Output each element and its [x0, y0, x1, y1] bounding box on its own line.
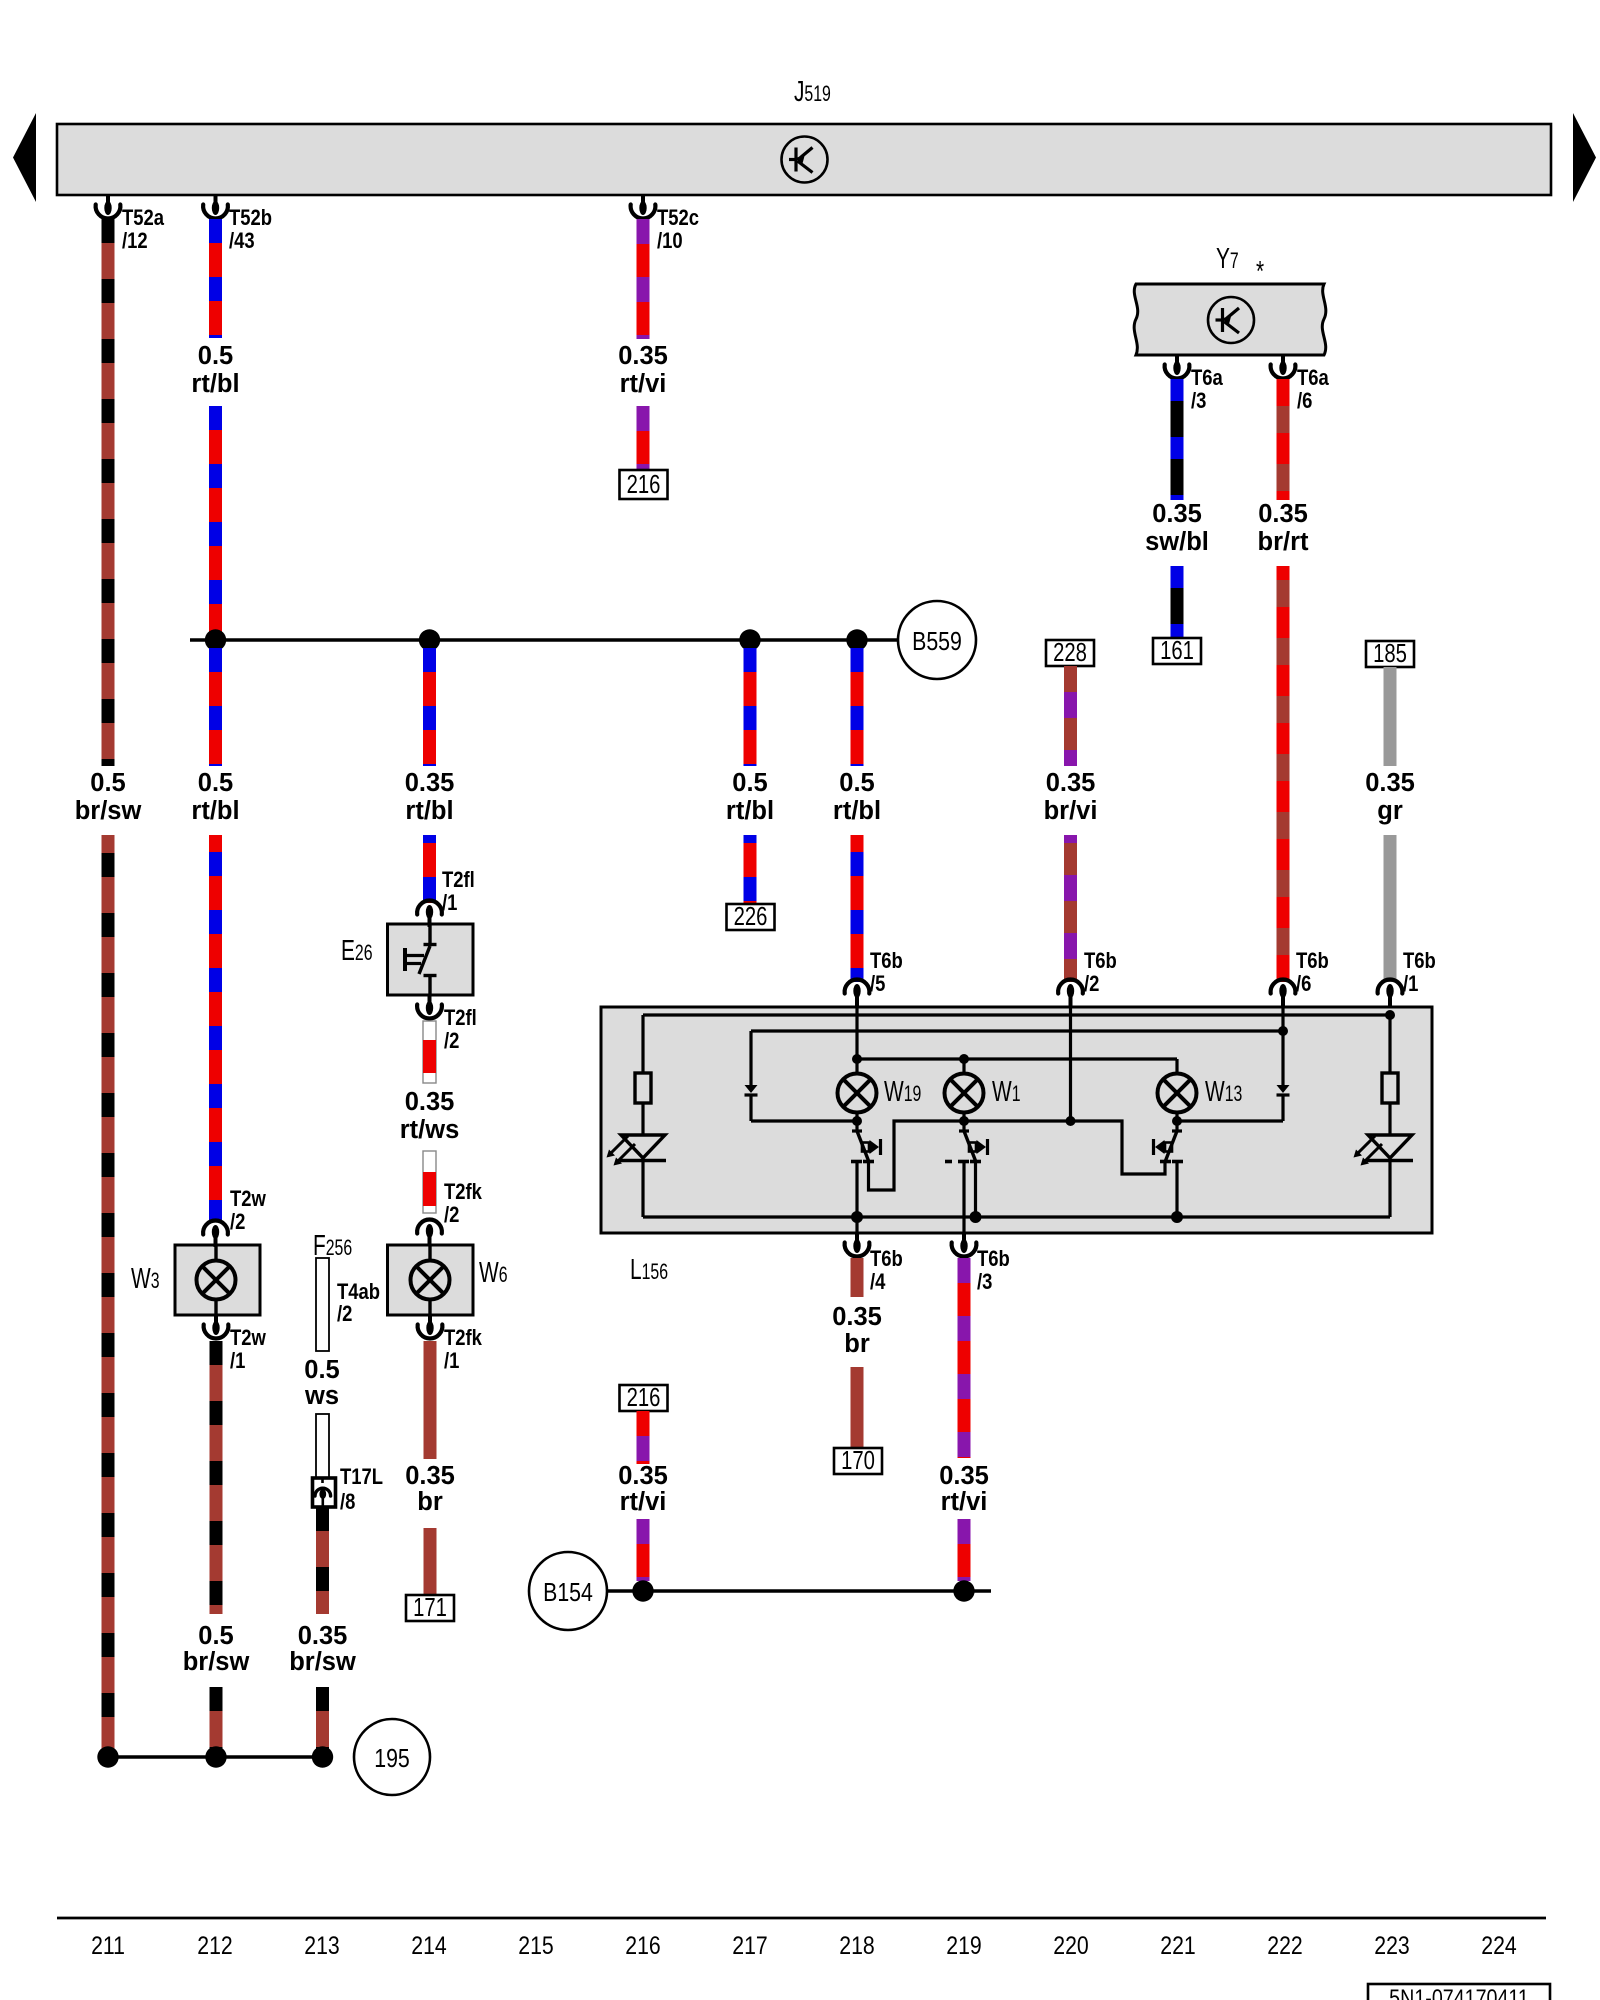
diode left: [745, 1085, 758, 1095]
svg-text:228: 228: [1053, 638, 1087, 667]
pin T2fl/2: [417, 995, 442, 1018]
pin T6b/4: [845, 1233, 870, 1256]
switch E26: [388, 924, 474, 995]
svg-text:rt/vi: rt/vi: [620, 1488, 667, 1516]
fuse wire 0.5 ws (upper): [316, 1258, 329, 1351]
svg-text:/6: /6: [1296, 971, 1311, 996]
control unit J519: [57, 124, 1551, 195]
node line B559: [190, 638, 898, 641]
diode left branch vertical: [749, 1031, 752, 1085]
svg-text:0.5: 0.5: [304, 1356, 339, 1384]
junction dot T6b/1 top rail: [1385, 1010, 1395, 1020]
svg-text:sw/bl: sw/bl: [1145, 528, 1209, 556]
junction dot B154 left: [632, 1580, 653, 1601]
pin T2w/2: [203, 1221, 228, 1247]
wire 0.35 sw/bl from T6a/3 (upper): [1171, 379, 1184, 500]
svg-text:T2w: T2w: [230, 1186, 267, 1211]
svg-text:0.35: 0.35: [939, 1462, 989, 1490]
wire T6b/5 feed to W19: [855, 1007, 858, 1074]
junction dot 212: [205, 629, 226, 650]
svg-text:T6a: T6a: [1191, 365, 1223, 390]
svg-text:rt/bl: rt/bl: [191, 370, 239, 398]
actuator Y7: [1134, 284, 1326, 355]
wire 0.5 br/sw T52a (lower, to node 195): [102, 835, 115, 1756]
pin T52c/10: [631, 195, 656, 218]
svg-text:T6b: T6b: [1403, 948, 1436, 973]
junction dot 195 c: [312, 1746, 333, 1767]
svg-text:E26: E26: [341, 935, 373, 967]
bus continuation arrow left: [13, 113, 36, 202]
svg-text:/1: /1: [230, 1348, 245, 1373]
svg-text:0.35: 0.35: [1046, 769, 1096, 797]
svg-text:/2: /2: [1084, 971, 1099, 996]
svg-text:217: 217: [732, 1931, 767, 1959]
junction dot Q3 gate bottom: [1171, 1211, 1183, 1223]
wire W13 top feed: [1175, 1059, 1178, 1074]
wire 0.35 br/rt from T6a/6 (upper): [1277, 379, 1290, 500]
svg-text:/12: /12: [122, 228, 148, 253]
node line 195: [108, 1755, 323, 1758]
wire 0.35 br to code 171: [424, 1528, 437, 1595]
svg-text:219: 219: [946, 1931, 981, 1959]
svg-text:211: 211: [91, 1931, 125, 1959]
svg-text:rt/vi: rt/vi: [941, 1488, 988, 1516]
wire 0.35 br/sw to node 195: [316, 1687, 329, 1756]
svg-text:5N1-074170411: 5N1-074170411: [1389, 1984, 1529, 2000]
svg-text:/2: /2: [230, 1209, 245, 1234]
svg-text:br/rt: br/rt: [1258, 528, 1310, 556]
svg-text:216: 216: [627, 470, 661, 499]
wire 0.5 br/sw below W3: [210, 1341, 223, 1614]
svg-text:/2: /2: [444, 1202, 459, 1227]
bus continuation arrow right: [1573, 113, 1596, 202]
wire 0.35 rt/ws to W6: [423, 1151, 436, 1213]
lamp W1: [945, 1074, 984, 1113]
svg-text:0.35: 0.35: [618, 1462, 668, 1490]
svg-text:0.5: 0.5: [198, 342, 233, 370]
svg-text:0.35: 0.35: [618, 342, 668, 370]
svg-text:br: br: [844, 1330, 870, 1358]
pin T2w/1: [204, 1315, 229, 1338]
svg-text:/1: /1: [1403, 971, 1418, 996]
svg-text:ws: ws: [304, 1382, 339, 1410]
svg-text:T6b: T6b: [977, 1246, 1010, 1271]
wire destination code 171: [406, 1593, 454, 1622]
svg-text:br/vi: br/vi: [1044, 797, 1098, 825]
svg-text:185: 185: [1373, 639, 1407, 668]
lamp W19: [838, 1074, 877, 1113]
K-symbol in J519: [782, 137, 828, 183]
svg-text:0.5: 0.5: [839, 769, 874, 797]
wire left branch vertical: [641, 1015, 644, 1073]
svg-text:/10: /10: [657, 228, 683, 253]
svg-text:226: 226: [734, 902, 768, 931]
svg-text:br/sw: br/sw: [289, 1648, 356, 1676]
transistor Q2 under W1: [945, 1113, 988, 1233]
svg-text:213: 213: [304, 1931, 339, 1959]
wire 0.35 sw/bl to code 161: [1171, 566, 1184, 638]
junction dot 218: [846, 629, 867, 650]
svg-text:/3: /3: [977, 1269, 992, 1294]
junction dot W13 bottom: [1172, 1116, 1182, 1126]
svg-text:gr: gr: [1377, 797, 1403, 825]
pin T6b/2: [1058, 980, 1083, 1006]
wire 0.5 rt/bl column 218 below B559: [851, 648, 864, 766]
wire destination code 216 (top): [620, 470, 668, 499]
svg-text:rt/ws: rt/ws: [400, 1116, 460, 1144]
junction dot T6b/6 second rail: [1278, 1026, 1288, 1036]
svg-text:B559: B559: [912, 627, 962, 657]
LED left: [607, 1135, 667, 1166]
wire 0.35 br to code 170: [851, 1367, 864, 1448]
svg-text:0.5: 0.5: [732, 769, 767, 797]
svg-text:/8: /8: [340, 1489, 355, 1514]
svg-text:rt/bl: rt/bl: [191, 797, 239, 825]
current track scale line: [57, 1917, 1546, 1920]
junction dot 195 a: [97, 1746, 118, 1767]
svg-text:218: 218: [839, 1931, 874, 1959]
svg-text:0.35: 0.35: [405, 1462, 455, 1490]
svg-text:220: 220: [1053, 1931, 1088, 1959]
fuse wire 0.5 ws (lower): [316, 1414, 329, 1478]
wire 0.5 rt/bl 217 to code 226: [744, 835, 757, 904]
junction dot T6b/2 end: [1066, 1116, 1076, 1126]
svg-text:0.5: 0.5: [90, 769, 125, 797]
svg-text:214: 214: [411, 1931, 447, 1959]
svg-text:T2w: T2w: [230, 1325, 267, 1350]
pin T6a/3: [1165, 355, 1190, 378]
svg-text:br: br: [417, 1488, 443, 1516]
junction dot 217: [739, 629, 760, 650]
pin T52a/12: [96, 195, 121, 218]
svg-text:0.35: 0.35: [405, 769, 455, 797]
svg-text:0.5: 0.5: [198, 769, 233, 797]
LED right: [1354, 1135, 1414, 1166]
svg-text:F256: F256: [313, 1230, 352, 1262]
svg-text:0.35: 0.35: [832, 1303, 882, 1331]
svg-text:195: 195: [374, 1744, 410, 1774]
svg-text:/5: /5: [870, 971, 885, 996]
wire destination code 170: [834, 1446, 882, 1475]
junction dot Q2 emitter bottom: [970, 1211, 982, 1223]
svg-text:T2fk: T2fk: [444, 1325, 482, 1350]
svg-text:222: 222: [1267, 1931, 1302, 1959]
pin T2fk/1: [418, 1315, 443, 1338]
wire 0.5 rt/bl from T52b (upper): [209, 219, 222, 338]
wire 0.5 rt/bl T52b to node B559: [209, 406, 222, 640]
svg-text:T2fl: T2fl: [442, 867, 475, 892]
wire 0.5 br/sw to node 195: [210, 1687, 223, 1756]
svg-text:/2: /2: [337, 1301, 352, 1326]
wire 0.35 br/vi to T6b/2: [1064, 835, 1077, 982]
wire internal top rail: [643, 1013, 1390, 1016]
wire destination code 226: [727, 902, 775, 931]
svg-text:W3: W3: [131, 1263, 160, 1295]
wire 0.5 rt/bl column 217 below B559: [744, 648, 757, 766]
wire 0.35 gr to T6b/1: [1384, 835, 1397, 982]
wire 0.35 rt/vi below code 216: [637, 1411, 650, 1464]
junction dot B154 right: [953, 1580, 974, 1601]
wire 0.35 rt/vi 216 to node B154: [637, 1519, 650, 1581]
junction dot 214: [419, 629, 440, 650]
resistor left: [635, 1073, 651, 1103]
svg-text:/43: /43: [229, 228, 255, 253]
svg-text:T52c: T52c: [657, 205, 699, 230]
wire 0.35 rt/bl column 214 below B559: [423, 648, 436, 766]
svg-text:rt/bl: rt/bl: [833, 797, 881, 825]
junction dot Q1 gate bottom: [851, 1211, 863, 1223]
wire 0.35 rt/vi from T52c: [637, 219, 650, 339]
wire 0.35 rt/bl 214 to E26: [423, 835, 436, 903]
transistor Q1 under W19: [851, 1113, 1165, 1233]
pin T6b/6: [1271, 980, 1296, 1006]
svg-text:B154: B154: [543, 1578, 593, 1608]
svg-text:161: 161: [1160, 636, 1194, 665]
svg-text:W6: W6: [479, 1257, 508, 1289]
svg-text:0.35: 0.35: [1258, 500, 1308, 528]
svg-text:/3: /3: [1191, 388, 1206, 413]
wire 0.35 gr below 185: [1384, 667, 1397, 766]
svg-text:215: 215: [518, 1931, 553, 1959]
svg-text:/1: /1: [444, 1348, 459, 1373]
bulb W3: [175, 1245, 260, 1315]
wire 0.35 rt/vi below T6b/3: [958, 1258, 971, 1458]
wire 0.35 br below T6b/4: [851, 1258, 864, 1297]
transistor Q3 under W13: [1154, 1113, 1184, 1217]
wire W13 bottom to diode branch: [1177, 1119, 1283, 1122]
pin T2fl/1: [417, 901, 442, 927]
svg-text:rt/vi: rt/vi: [620, 370, 667, 398]
svg-text:L156: L156: [630, 1254, 668, 1286]
diode right (column 222): [1277, 1085, 1290, 1095]
svg-text:0.35: 0.35: [1365, 769, 1415, 797]
svg-text:/1: /1: [442, 890, 457, 915]
svg-text:/4: /4: [870, 1269, 886, 1294]
wire T6b/6 vertical: [1281, 1007, 1284, 1085]
svg-text:T17L: T17L: [340, 1464, 383, 1489]
svg-text:T6b: T6b: [1084, 948, 1117, 973]
wire W1 top feed: [962, 1059, 965, 1074]
junction dot 195 b: [205, 1746, 226, 1767]
svg-text:T6b: T6b: [870, 948, 903, 973]
svg-text:rt/bl: rt/bl: [726, 797, 774, 825]
pin T6a/6: [1271, 355, 1296, 378]
wire T6b/2 vertical: [1069, 1007, 1072, 1121]
node line B154: [607, 1589, 991, 1592]
wire 0.5 br/sw from T52a (upper): [102, 219, 115, 766]
svg-text:rt/bl: rt/bl: [405, 797, 453, 825]
svg-text:T6b: T6b: [1296, 948, 1329, 973]
wire internal lamp feed rail: [857, 1057, 1177, 1060]
svg-text:0.35: 0.35: [298, 1622, 348, 1650]
wire 0.35 br below W6: [424, 1341, 437, 1459]
svg-text:T6b: T6b: [870, 1246, 903, 1271]
svg-text:T6a: T6a: [1297, 365, 1329, 390]
wire 0.35 rt/ws below E26: [423, 1021, 436, 1083]
pin T6b/3: [952, 1233, 977, 1256]
pin T6b/5: [845, 980, 870, 1006]
pin T2fk/2: [417, 1220, 442, 1246]
svg-text:T2fl: T2fl: [444, 1005, 477, 1030]
connector T17L/8: [313, 1478, 336, 1507]
svg-text:T2fk: T2fk: [444, 1179, 482, 1204]
svg-text:J519: J519: [794, 76, 831, 108]
wire 0.5 rt/bl column 212 below B559: [209, 648, 222, 766]
junction dot W19 top: [852, 1054, 862, 1064]
wire destination code 216 (lower): [620, 1383, 668, 1412]
svg-text:224: 224: [1481, 1931, 1517, 1959]
junction dot W1 bottom: [959, 1116, 969, 1126]
K-symbol in Y7: [1208, 297, 1254, 343]
wire 0.35 rt/vi to code 216: [637, 406, 650, 470]
drawing number box: [1368, 1984, 1550, 2000]
svg-text:216: 216: [627, 1383, 661, 1412]
wire destination code 161: [1153, 636, 1201, 665]
svg-text:212: 212: [197, 1931, 232, 1959]
wire left collector rail: [751, 1119, 857, 1122]
pin T6b/1: [1378, 980, 1403, 1006]
wire internal second rail: [751, 1029, 1283, 1032]
svg-text:221: 221: [1160, 1931, 1195, 1959]
node circle 195: [354, 1719, 430, 1795]
svg-text:/2: /2: [444, 1028, 459, 1053]
junction dot W1 top: [959, 1054, 969, 1064]
wire internal bottom rail: [643, 1215, 1390, 1218]
svg-text:*: *: [1256, 256, 1264, 288]
wire destination code 185: [1366, 639, 1414, 668]
lamp W13: [1158, 1074, 1197, 1113]
wire 0.35 br/rt to T6b/6: [1277, 566, 1290, 982]
svg-text:br/sw: br/sw: [183, 1648, 250, 1676]
bulb W6: [388, 1245, 474, 1315]
wire 0.5 rt/bl 212 to W3: [209, 835, 222, 1220]
svg-text:br/sw: br/sw: [75, 797, 142, 825]
node circle B559: [898, 601, 976, 679]
wire 0.35 rt/vi to node B154: [958, 1519, 971, 1581]
node circle B154: [529, 1552, 607, 1630]
svg-text:T52a: T52a: [122, 205, 165, 230]
svg-text:0.5: 0.5: [198, 1622, 233, 1650]
pin T52b/43: [203, 195, 228, 218]
wire destination code 228: [1046, 638, 1094, 667]
svg-text:223: 223: [1374, 1931, 1409, 1959]
resistor right: [1382, 1073, 1398, 1103]
svg-text:171: 171: [413, 1593, 447, 1622]
svg-text:/6: /6: [1297, 388, 1312, 413]
svg-text:0.35: 0.35: [405, 1088, 455, 1116]
wire right branch vertical: [1388, 1015, 1391, 1073]
wire 0.35 br/sw below T17L: [316, 1507, 329, 1614]
svg-text:T52b: T52b: [229, 205, 272, 230]
svg-text:Y7: Y7: [1216, 243, 1239, 275]
wire 0.35 br/vi below 228: [1064, 666, 1077, 766]
svg-text:0.35: 0.35: [1152, 500, 1202, 528]
svg-text:170: 170: [841, 1446, 875, 1475]
lamp module L156: [601, 1007, 1432, 1233]
junction dot W19 bottom: [852, 1116, 862, 1126]
svg-text:216: 216: [625, 1931, 660, 1959]
wire 0.5 rt/bl 218 to T6b/5: [851, 835, 864, 982]
